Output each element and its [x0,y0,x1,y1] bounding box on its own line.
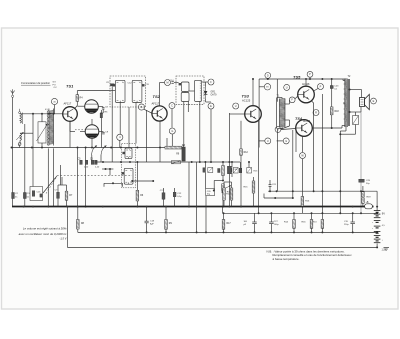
wire F2 to TS5 [295,97,297,99]
wire C14 to MF2 [174,82,179,84]
varcap C2 arrow [92,146,98,156]
resistor R10b [222,166,225,176]
label R6 [140,195,144,197]
MF1 winding b [132,80,144,102]
svg-text:-1,5 V: -1,5 V [59,236,66,240]
tick GM [277,140,284,142]
wire L1 top [20,113,63,115]
wire TS1 collector up [75,102,78,109]
wire C down [171,109,173,128]
wire stage right down [276,98,278,129]
resistor R8h [165,146,182,149]
wire box down [340,125,355,135]
label C12a [128,83,133,85]
volume coupler C16h [171,161,180,164]
label TS4 [295,117,303,121]
label C14 [170,80,175,82]
wire battery mid [376,231,377,233]
svg-text:TS3: TS3 [242,94,250,99]
node V1 [275,127,281,133]
wire R4 top [76,91,78,95]
node F2 [289,97,295,103]
MF1 winding a [113,80,125,102]
wire C12b leads [174,188,176,207]
wire C18 leads [146,207,148,233]
label R10 volume [226,194,231,196]
wire pot bottom [222,193,224,208]
svg-text:PO: PO [53,84,56,86]
wire TS1 to Z1 [77,105,84,107]
label TS3 [242,94,250,99]
svg-text:Commutateur de position: Commutateur de position [21,81,51,85]
label TS2 [153,94,161,99]
wire agc bracket [102,168,113,175]
note left [19,226,67,240]
resistor R14 [284,220,295,229]
ground bus [12,206,374,208]
capacitor C3 pad [23,193,30,199]
node G [169,128,175,134]
capacitor C2 pad [12,193,19,199]
node F1 [208,79,214,85]
junction L1 top [32,113,34,115]
wire gang down x101 [100,155,102,162]
wire MF1a out [119,103,121,135]
svg-text:100µ: 100µ [274,224,279,226]
resistor R12 [240,149,243,155]
wire trim bracket [104,182,123,187]
svg-text:B: B [141,105,143,109]
wire x223 seg [222,161,224,182]
wire cluster stubs [241,161,251,168]
label R4 [80,96,84,99]
resistor R8 [77,220,85,230]
MF2 winding a [179,82,189,102]
tick PH [314,89,318,92]
svg-text:AF117: AF117 [64,102,72,106]
coil L1 ferrite [19,109,23,124]
antenna A1 [11,89,15,97]
wire x206 drop [205,196,207,233]
wire TS5 emitter down [311,101,314,192]
svg-text:U: U [235,105,237,108]
wire L2 down [19,140,21,142]
wire agc drop [60,165,62,185]
wire TS3 base [229,113,245,115]
wire Z1 right [98,106,103,108]
wire R14 leads [293,213,295,232]
wire C1 down [19,145,21,147]
svg-text:U: U [286,86,288,89]
svg-text:AF117: AF117 [152,102,160,106]
wire gang down x92 [91,155,93,160]
svg-text:GR1: GR1 [211,92,216,94]
rail top right [277,78,346,80]
junction top rail [252,78,333,80]
node UM3 [284,84,290,90]
trimmer C6 [84,160,89,168]
capacitor C9 [102,131,109,134]
trimmer C1 [18,143,21,146]
wire T1 sec bot [281,120,290,129]
svg-text:Le volume est réglé suivant à: Le volume est réglé suivant à 30% [23,226,67,230]
resistor R4 [76,95,79,102]
potentiometer R9 [182,145,185,162]
wire R19 leads [362,186,364,207]
label AC128 TS4 [303,120,311,123]
wire C17 leads [163,188,165,207]
tuned circuit Z2 [85,125,99,139]
resistor R15 [243,181,254,193]
wire R11 leads [224,182,232,207]
junction rail213 [258,212,362,214]
svg-text:9V: 9V [382,212,385,216]
wire Z2 top [91,119,93,125]
node E1 [208,103,214,109]
node 6V [264,84,270,90]
switch I1 [365,202,373,209]
wire C27 leads [270,213,272,232]
node PH [318,84,324,90]
label GR1 OA79 [211,92,218,97]
node M1 [165,80,171,86]
speaker LS [360,94,370,109]
capacitor C21 [269,184,277,186]
svg-text:TS5: TS5 [293,75,301,80]
wire F1 stub [202,82,208,87]
resistor R9c [208,168,213,173]
wire TS3 collector [252,79,254,106]
capacitor C18b [203,168,206,173]
svg-text:avec un oscillateur mod. de 0,: avec un oscillateur mod. de 0,2000 kc [19,232,67,236]
net rail y247 [67,246,376,248]
svg-text:M: M [166,81,168,84]
wire T2 pins [343,79,345,103]
transistor TS2 [152,106,167,121]
label 4V5 [382,225,386,227]
label R12 [244,152,249,154]
capacitor C11 feed [106,82,150,86]
wire x340 down [339,134,341,213]
svg-text:R17: R17 [227,223,232,225]
rail y91 TS1-MF1 [77,90,110,92]
wire R17 leads [223,212,225,232]
wire L3 top [41,114,43,122]
label TS1 [66,84,74,89]
wire Tosc top [45,105,54,114]
wire T1 sec top [284,100,289,104]
electrolytic C26 [244,221,257,226]
wire x196 drop [196,162,198,232]
stage box right [276,79,278,102]
resistor R10 [223,188,232,200]
wire C23 leads [331,79,333,107]
resistor R13b [247,168,258,174]
wire C26 leads [254,213,256,232]
note right [267,249,353,260]
svg-text:G: G [285,140,287,143]
capacitor C16c [230,168,232,172]
transistor TS1 [63,107,78,122]
junction R18 bot [331,127,333,129]
net seg y198 [264,194,293,199]
wire L3 bottom [41,143,43,148]
padder shield box [122,144,136,188]
wire x77 drop [77,148,79,208]
transformer T1 [280,99,286,128]
wire x33 mid [32,148,34,187]
wire MF1b down1 [128,107,130,148]
IF transformer MF1 shield [110,76,146,107]
capacitor C23 [330,86,339,91]
wire x292 down [292,130,294,198]
svg-text:G: G [171,130,173,133]
trimmer C7t [90,159,94,165]
wire MF2a down [184,102,189,147]
node UM2 [300,153,306,159]
resistor R16b [301,197,310,207]
junction x340 [339,133,341,135]
wire C21 leads [269,180,271,192]
label R7b [69,195,73,197]
wire x67 drop [66,207,68,248]
wire x232 seg [231,161,233,177]
label AF117 TS2 [152,102,160,106]
resistor R16 [301,220,312,229]
wire switch arm [40,176,57,197]
node UM4 [265,138,271,144]
wire P1 stub [309,77,311,79]
ground symbol [384,247,390,250]
wire T2 sec a [349,89,362,98]
wire R9b leads [165,207,167,233]
wire B to TS2 [144,109,153,113]
wire TS5 collector up [305,79,307,86]
coil L3 box [37,122,48,143]
net rail y213 [223,207,378,214]
wire x70 em [69,122,71,148]
label T2 [344,75,351,119]
wire x229 col [228,113,230,207]
wire TS4 emitter down [302,136,304,213]
svg-text:GO: GO [53,82,57,84]
wire TS3 base down [240,121,242,207]
gang dash line [57,174,132,176]
wire antenna down [12,97,14,207]
node B [138,104,144,110]
node R21 [313,110,319,116]
wire box top [355,112,357,116]
stage box top [259,78,277,80]
wire battery top [376,191,378,233]
wire C3 leads [24,148,26,207]
padder coil Pb [122,168,133,184]
junction L3 [41,113,43,149]
wire left column x33 [32,114,34,148]
capacitor C17b [239,168,242,173]
node P1 [307,71,313,77]
wire E1 down [210,109,212,162]
junction I1 [376,206,378,208]
trimmer C5 [78,159,83,165]
gang dash diagonal [46,176,57,193]
wire TS3 emitter down [258,120,260,214]
resistor R9b [165,220,173,230]
transistor TS5 [298,86,315,103]
wire TS2 collector up [160,83,165,107]
tick 6V [259,86,264,88]
wire Tosc right leg [53,148,55,207]
varcap C3 arrow [101,146,107,156]
trimmer C8t [95,160,101,168]
svg-text:R: R [315,111,317,114]
wire R6 leads [136,162,138,207]
wire battery bottom [376,244,378,249]
label 1V5 [382,249,387,252]
junction x322 [321,78,323,192]
net rail y232 [78,231,376,233]
wire left column x25 [24,124,26,148]
wire Z2 right [99,131,104,133]
wire R8 leads [77,207,79,233]
battery cell taps [372,221,380,234]
transformer T-osc [47,109,54,146]
electrolytic C27 [269,221,279,226]
resistor R7b [65,191,68,200]
wire speaker down [360,112,362,213]
capacitor C17 [160,190,165,199]
net rail y191 [268,190,377,192]
wire R10 leads [223,182,225,207]
node E2 [371,98,377,104]
svg-text:U: U [267,140,269,143]
label GO PO OC [53,82,58,90]
wire R15 leads [253,177,255,207]
wire TS4 collector [312,126,345,129]
wire pot link [213,181,223,192]
stage box left [258,79,260,148]
capacitor C8 [102,107,109,109]
node 4 [117,134,123,140]
wire D1 stub [267,77,269,80]
svg-text:D: D [267,74,269,77]
wire x189 drop [188,162,190,207]
wire C2 leads [12,192,14,194]
resistor R19 [362,192,372,204]
battery B1 9V [374,211,385,218]
capacitor C19b [218,169,220,173]
wire R13 leads [321,213,323,232]
padder coil Pa [122,148,132,159]
svg-text:C: C [171,105,173,108]
wire L2 top [20,132,33,134]
wire x146 seg [146,110,148,162]
svg-text:AC125: AC125 [242,99,251,103]
wire TS1 base [62,113,64,115]
junction seg198 [274,197,294,199]
svg-text:TS1: TS1 [66,84,74,89]
node UM1 [233,103,239,109]
junction rail191 [276,190,362,192]
diode GR1 [204,87,208,100]
wire Tosc left leg [47,148,49,207]
label TS5 [293,75,301,80]
capacitor C12b [173,192,176,197]
transformer T2 [345,79,350,127]
junction bus [23,206,354,208]
wire C19 leads [352,213,354,232]
resistor R13 [312,220,323,229]
svg-text:R18: R18 [335,111,340,113]
wire x205 seg [204,161,206,189]
label C12b [177,193,182,198]
electrolytic C19 [344,221,355,226]
label Commutateur [21,81,51,85]
wire x322 long [321,94,323,213]
wire R7b leads [58,177,67,207]
wire node4 down [119,140,121,147]
band switch box C13 [30,187,43,201]
node C [169,103,175,109]
capacitor C7b [55,190,60,199]
wire T1 top [277,98,282,99]
label AC128 TS5 [302,83,310,86]
svg-text:R12: R12 [244,152,249,154]
electrolytic C18 [145,221,155,226]
wire C8 down [100,109,103,113]
junction Z2 bottom [91,147,93,149]
wire V1 to TS4 [281,129,296,153]
wire MF1 in [110,90,115,92]
wire TS2 emitter down [160,120,167,162]
junction rail147 a [11,147,122,149]
label R18 [335,111,340,113]
wire TS1 emitter down [70,121,75,131]
resistor R6 [136,190,139,201]
wire MF2 link [189,91,201,163]
capacitor C25 [359,179,371,185]
IF transformer MF2 shield [176,76,204,104]
wire T2 bottom [340,127,346,134]
junction rail162 [102,161,230,163]
wire T2 sec b [349,107,361,113]
resistor R11b [233,168,238,174]
wire Z2 left [80,131,85,133]
thermistor box R20 [353,116,359,125]
node +4V5 [51,98,57,104]
junction rail147 b [136,147,161,149]
net rail y147 [12,147,123,149]
svg-text:à basse température.: à basse température. [273,257,300,261]
wire Z2 bottom [91,138,93,147]
wire R16 leads [311,213,313,232]
net rail y162 [95,161,240,163]
wire gang x86 [85,148,87,208]
gang dash to osc [75,129,85,131]
wire G down [171,134,173,146]
label AF117 TS1 [64,102,72,106]
wire x112 down [111,148,113,163]
wire R18 down [331,115,333,128]
wire diode out [206,99,211,102]
junction rail232 [146,231,354,233]
label R9 pot [176,154,180,156]
resistor R18 [330,107,333,115]
svg-text:+B: +B [366,202,369,204]
coupling cap C16 [227,166,237,174]
svg-text:OC: OC [54,87,58,89]
resistor R5 [100,110,108,148]
